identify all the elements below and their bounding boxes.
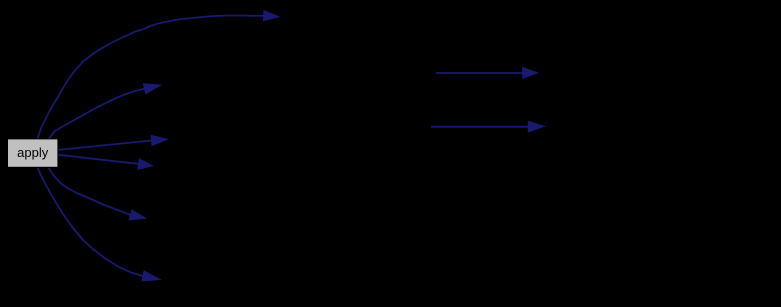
edge apply->node3 (straight) <box>59 141 152 150</box>
edge apply->node5 (curved) <box>48 168 130 216</box>
edge apply->top node (curved) <box>38 16 264 139</box>
arrowhead node5 <box>129 210 146 220</box>
edge hidden node A -> hidden node B (horizontal upper) <box>436 72 523 74</box>
arrowhead top <box>263 11 279 21</box>
arrowhead node6 <box>142 271 161 281</box>
edge apply->node2 (curved) <box>49 89 145 139</box>
edge hidden node C -> hidden node D (horizontal lower) <box>431 126 528 128</box>
node apply (grey box) <box>8 139 58 167</box>
arrowhead node4 <box>138 159 153 170</box>
svg-text:apply: apply <box>17 145 49 160</box>
edge apply->node4 (straight) <box>59 155 139 164</box>
arrowhead node3 <box>151 135 167 145</box>
arrowhead node2 <box>143 84 161 94</box>
arrowhead lower horizontal <box>528 121 545 132</box>
edge apply->node6 (curved) <box>37 168 143 277</box>
arrowhead upper horizontal <box>523 67 538 78</box>
